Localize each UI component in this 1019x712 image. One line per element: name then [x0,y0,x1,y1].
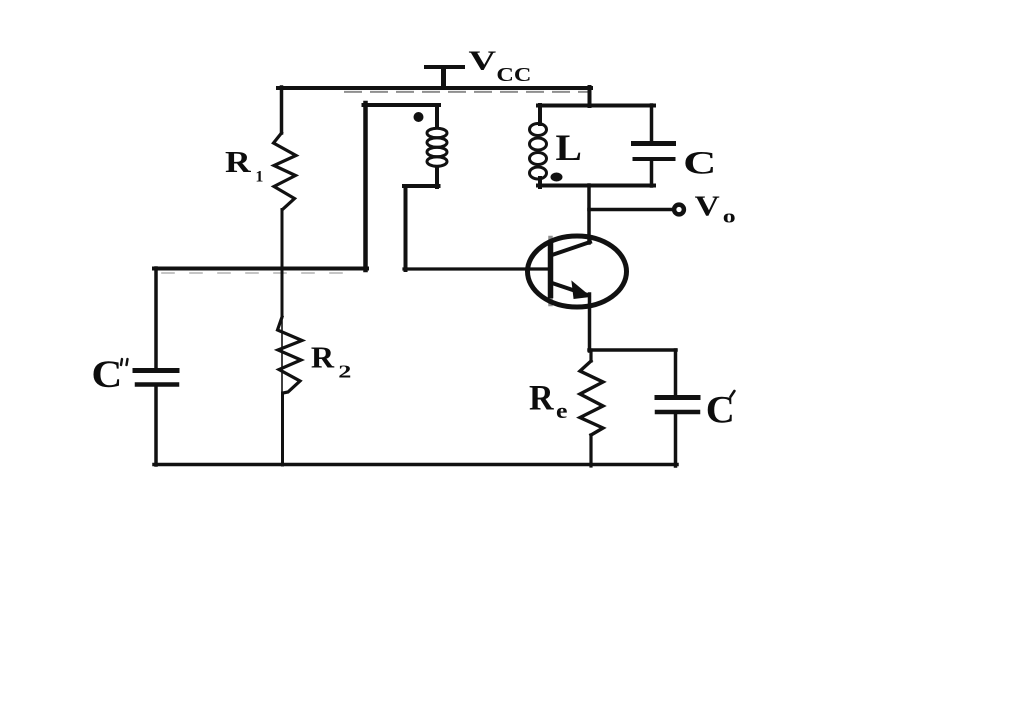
transformer primary coil [427,128,447,166]
label R1 [225,144,263,186]
tank bottom wire [538,184,654,188]
inductor L bottom leg [538,178,542,187]
label C [683,146,716,182]
tank top wire [538,104,654,108]
wire Vo tap [589,208,671,212]
svg-text:C: C [683,146,716,182]
wire rail down to tank [588,87,592,106]
wire R2 to bottom rail [281,393,284,465]
capacitor C [634,105,674,186]
inductor L coil [530,124,547,180]
svg-text:e: e [556,398,568,423]
transistor base bar scan smear [548,238,553,304]
svg-text:R: R [529,378,555,418]
label C' [706,389,735,432]
resistor Re [580,350,603,466]
transformer primary winding left leg [364,103,440,270]
Vcc supply symbol [426,67,463,88]
label R2 [311,339,352,381]
wire emitter junction to C' [589,348,676,352]
wire bottom rail [154,463,677,467]
wire primary coil bottom [404,168,439,270]
svg-text:R: R [311,339,335,374]
svg-text:2: 2 [338,362,351,382]
wire primary to transistor base [404,267,549,270]
transistor Q1 [528,236,627,307]
wire R1 to R2 branch [281,210,284,318]
polarity dot L [551,173,563,182]
svg-text:o: o [723,207,736,228]
wire base bias horizontal (C'' to transformer leg) [154,267,367,271]
resistor R2 [281,317,283,393]
capacitor C' [657,350,698,466]
label VCC [469,45,532,86]
svg-text:1: 1 [255,169,263,186]
terminal Vo [674,205,684,215]
inductor L left leg [538,105,542,124]
wire emitter [588,294,592,351]
svg-text:R: R [225,144,251,179]
wire top rail [278,86,591,90]
polarity dot primary [414,112,424,122]
capacitor C'' [135,268,177,465]
label L [556,127,582,168]
label Vo [695,191,736,228]
wire top rail scan shadow [345,91,590,93]
svg-text:CC: CC [496,65,531,86]
svg-text:V: V [469,45,497,75]
label Re [529,378,568,423]
wire tank to collector [587,185,591,243]
resistor R1 [274,133,297,210]
wire rail down to R1 [280,87,284,133]
wire base bias scan shadow [162,272,358,274]
label C'' [91,353,122,396]
svg-text:L: L [556,127,582,168]
svg-text:V: V [695,191,720,223]
svg-text:C: C [91,353,122,396]
